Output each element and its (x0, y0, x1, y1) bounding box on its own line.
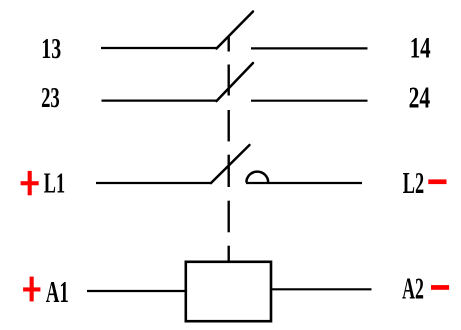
svg-text:13: 13 (41, 34, 61, 66)
wire (A1 to coil) (87, 290, 185, 292)
svg-text:A2: A2 (402, 271, 424, 305)
mechanical linkage dashed line (227, 37, 229, 261)
svg-text:23: 23 (41, 82, 60, 114)
polarity mark + at L1 (21, 171, 39, 195)
svg-text:L1: L1 (44, 167, 65, 199)
contact blade L1-L2 (211, 145, 250, 183)
svg-text:L2: L2 (403, 165, 424, 200)
wire (contact to 14) (251, 47, 368, 49)
polarity mark + at A1 (23, 277, 40, 302)
wire (L1 to contact pivot) (96, 182, 212, 184)
svg-text:14: 14 (410, 31, 431, 65)
svg-text:24: 24 (409, 79, 431, 114)
svg-text:A1: A1 (46, 274, 69, 309)
coil K1 (relay coil box) (186, 262, 271, 321)
polarity mark - at A2 (431, 285, 449, 290)
contact blade NO 13-14 (217, 12, 254, 49)
wire (coil to A2) (272, 288, 372, 290)
wire (arc to L2) (246, 182, 362, 184)
wire (23 to contact pivot) (102, 99, 218, 101)
wire (13 to contact pivot) (101, 47, 218, 49)
polarity mark - at L2 (428, 179, 446, 184)
wire (contact to 24) (251, 100, 368, 102)
test-button arc on L2 side (246, 172, 268, 183)
contact blade NO 23-24 (217, 63, 254, 101)
